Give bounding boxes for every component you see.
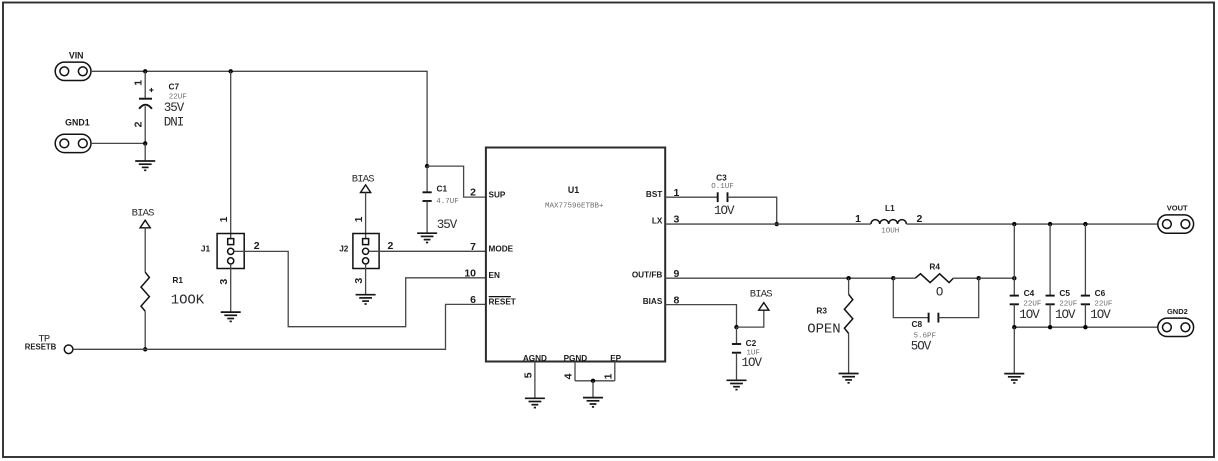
wire C7 top lead bbox=[144, 71, 146, 98]
svg-text:R4: R4 bbox=[929, 262, 940, 272]
wire C2 bottom lead bbox=[736, 353, 738, 381]
wire J2 pin2 to MODE bbox=[369, 250, 486, 252]
wire R4 to right node bbox=[953, 277, 979, 279]
capacitor C8 bbox=[929, 313, 939, 323]
wire VIN to SUP corner bbox=[91, 71, 427, 166]
wire EP lead bbox=[614, 362, 616, 381]
wire PGND-EP bus bbox=[575, 380, 615, 382]
svg-text:1: 1 bbox=[353, 216, 365, 222]
junction OUT/FB / R3 bbox=[846, 276, 850, 280]
svg-text:35V: 35V bbox=[164, 101, 185, 115]
ground at C2 bbox=[727, 380, 747, 389]
connector VOUT bbox=[1158, 215, 1194, 233]
svg-text:GND1: GND1 bbox=[65, 117, 90, 127]
svg-text:C6: C6 bbox=[1095, 288, 1106, 298]
wire to ground GND1 bbox=[144, 143, 146, 161]
svg-text:1: 1 bbox=[602, 373, 614, 379]
wire PGND lead bbox=[574, 362, 576, 381]
svg-text:1: 1 bbox=[133, 80, 145, 86]
wire R1 to RESETB net bbox=[144, 311, 146, 349]
wire C3 to LX node bbox=[728, 197, 777, 224]
wire C6 bottom lead bbox=[1084, 304, 1086, 327]
ground at output bus bbox=[1004, 374, 1024, 383]
wire BIAS pin to C2 bbox=[665, 305, 736, 328]
svg-text:10: 10 bbox=[464, 267, 476, 279]
ground at PGND bbox=[583, 398, 603, 407]
ground at R3 bbox=[839, 374, 859, 383]
wire GND1 to node bbox=[91, 142, 145, 144]
svg-text:1OV: 1OV bbox=[1090, 308, 1111, 322]
svg-text:3: 3 bbox=[353, 278, 365, 284]
connector VIN bbox=[55, 62, 91, 80]
svg-text:C5: C5 bbox=[1059, 288, 1070, 298]
svg-text:BIAS: BIAS bbox=[750, 288, 773, 300]
svg-text:BIAS: BIAS bbox=[132, 207, 155, 219]
wire AGND to ground bbox=[534, 362, 536, 399]
svg-text:DNI: DNI bbox=[164, 115, 184, 129]
svg-text:2: 2 bbox=[133, 121, 145, 127]
svg-text:1OUH: 1OUH bbox=[881, 228, 899, 236]
wire PGND node to ground bbox=[592, 381, 594, 398]
wire C2 top lead bbox=[736, 327, 738, 344]
capacitor C2 bbox=[732, 344, 741, 353]
svg-text:OUT/FB: OUT/FB bbox=[632, 271, 663, 280]
wire FB to C4 column bbox=[979, 277, 1015, 279]
svg-text:C7: C7 bbox=[169, 82, 180, 92]
junction VOUT/C5 bbox=[1048, 222, 1052, 226]
resistor R1 bbox=[141, 272, 149, 311]
wire RESETB net bbox=[73, 304, 486, 349]
junction VOUT/C4 bbox=[1012, 222, 1016, 226]
svg-text:C8: C8 bbox=[912, 319, 923, 329]
power symbol BIAS (R1) bbox=[140, 220, 150, 228]
testpoint TP bbox=[64, 345, 73, 354]
junction GND1/C7 bbox=[143, 141, 147, 145]
wire L1 to VOUT bbox=[906, 223, 1157, 225]
wire C8 left branch bbox=[893, 278, 928, 317]
svg-text:U1: U1 bbox=[568, 185, 579, 195]
wire node to SUP bbox=[427, 166, 486, 197]
wire bus to ground bbox=[1013, 327, 1015, 373]
svg-text:VOUT: VOUT bbox=[1167, 204, 1188, 213]
svg-text:1: 1 bbox=[855, 213, 861, 225]
wire C7 bottom lead bbox=[144, 106, 146, 143]
wire R3 to ground bbox=[848, 333, 850, 373]
wire to R4 bbox=[893, 277, 915, 279]
svg-text:1OOK: 1OOK bbox=[171, 292, 205, 308]
svg-text:O.1UF: O.1UF bbox=[711, 183, 734, 191]
svg-text:RESETB: RESETB bbox=[25, 343, 57, 352]
wire R3 top lead bbox=[848, 278, 850, 294]
svg-text:C3: C3 bbox=[716, 173, 727, 183]
svg-text:5OV: 5OV bbox=[911, 340, 932, 354]
connector J2 bbox=[353, 234, 379, 269]
svg-text:RESET: RESET bbox=[489, 298, 516, 307]
connector J1 bbox=[217, 234, 244, 269]
wire J1 pin3 to ground bbox=[230, 264, 232, 312]
svg-text:2: 2 bbox=[388, 240, 394, 252]
svg-text:LX: LX bbox=[652, 217, 663, 226]
junction C2/BIAS arrow bbox=[734, 325, 738, 329]
wire LX to L1 bbox=[665, 223, 871, 225]
svg-text:4: 4 bbox=[563, 373, 575, 379]
wire J1 pin1 to VIN net bbox=[230, 71, 232, 238]
wire ground bus to GND2 bbox=[1014, 326, 1158, 328]
junction FB/C4 bbox=[1012, 276, 1016, 280]
ground at GND1 bbox=[135, 161, 155, 170]
junction R4/C8 right bbox=[977, 276, 981, 280]
svg-text:2: 2 bbox=[917, 213, 923, 225]
svg-text:EP: EP bbox=[610, 354, 621, 363]
svg-text:6: 6 bbox=[470, 294, 476, 306]
wire to BIAS arrow bbox=[737, 310, 764, 327]
junction bus/C5 bbox=[1048, 325, 1052, 329]
junction R1/RESETB wire bbox=[143, 347, 147, 351]
svg-text:4.7UF: 4.7UF bbox=[436, 198, 459, 206]
wire C1 bottom lead bbox=[426, 201, 428, 233]
junction VOUT/C6 bbox=[1083, 222, 1087, 226]
capacitor C1 bbox=[423, 192, 432, 201]
capacitor C7 plus mark bbox=[149, 88, 153, 92]
capacitor C7 bbox=[139, 99, 152, 109]
junction PGND/EP bbox=[591, 379, 595, 383]
junction C3/LX bbox=[775, 222, 779, 226]
svg-text:GND2: GND2 bbox=[1167, 307, 1188, 316]
svg-text:J2: J2 bbox=[339, 244, 349, 254]
svg-text:O: O bbox=[936, 286, 943, 300]
junction bus/C6 bbox=[1083, 325, 1087, 329]
svg-text:EN: EN bbox=[489, 271, 500, 280]
capacitor C6 bbox=[1081, 296, 1090, 305]
svg-text:C4: C4 bbox=[1024, 288, 1035, 298]
svg-text:5: 5 bbox=[522, 372, 534, 378]
svg-text:1OV: 1OV bbox=[1055, 308, 1076, 322]
wire BST to C3 bbox=[665, 196, 718, 198]
ground at AGND bbox=[525, 398, 545, 407]
wire J2 pin1 lead bbox=[365, 193, 367, 239]
svg-text:VIN: VIN bbox=[69, 51, 84, 61]
wire J2 pin3 to ground bbox=[365, 264, 367, 295]
power symbol BIAS (J2) bbox=[361, 185, 371, 193]
op-amp U1 body bbox=[486, 148, 665, 362]
resistor R3 bbox=[844, 294, 852, 333]
svg-text:J1: J1 bbox=[201, 244, 211, 254]
junction VIN/J1 pin1 bbox=[229, 69, 233, 73]
inductor L1 bbox=[871, 220, 907, 224]
svg-text:R3: R3 bbox=[816, 306, 827, 316]
svg-text:2: 2 bbox=[254, 240, 260, 252]
power symbol BIAS (C2) bbox=[759, 303, 769, 311]
wire C1 top lead bbox=[426, 166, 428, 192]
svg-text:C2: C2 bbox=[746, 338, 757, 348]
svg-text:SUP: SUP bbox=[489, 190, 506, 199]
junction R4/C8 left bbox=[891, 276, 895, 280]
svg-text:7: 7 bbox=[470, 241, 476, 253]
svg-text:OPEN: OPEN bbox=[807, 321, 840, 337]
capacitor C4 bbox=[1010, 296, 1019, 305]
wire C5 top lead bbox=[1049, 224, 1051, 296]
svg-text:1OV: 1OV bbox=[714, 204, 735, 218]
junction bus/C4 bbox=[1012, 325, 1016, 329]
svg-text:1OV: 1OV bbox=[1019, 308, 1040, 322]
svg-text:BIAS: BIAS bbox=[352, 174, 375, 186]
junction C1/SUP bbox=[425, 164, 429, 168]
overline on RESET bbox=[489, 296, 511, 298]
svg-text:L1: L1 bbox=[885, 203, 895, 213]
capacitor C3 bbox=[718, 192, 728, 202]
connector GND2 bbox=[1158, 318, 1194, 336]
svg-text:MODE: MODE bbox=[489, 245, 514, 254]
connector GND1 bbox=[55, 134, 91, 152]
wire C4 bottom lead bbox=[1013, 304, 1015, 327]
resistor R4 bbox=[915, 274, 953, 283]
svg-text:C1: C1 bbox=[437, 183, 448, 193]
svg-text:1OV: 1OV bbox=[742, 356, 763, 370]
svg-text:2: 2 bbox=[470, 187, 476, 199]
wire C4 top lead bbox=[1013, 224, 1015, 296]
capacitor C5 bbox=[1046, 296, 1055, 305]
svg-text:3: 3 bbox=[218, 279, 230, 285]
svg-text:R1: R1 bbox=[172, 275, 183, 285]
wire C6 top lead bbox=[1084, 224, 1086, 296]
wire C5 bottom lead bbox=[1049, 304, 1051, 327]
wire C8 right branch bbox=[938, 278, 978, 317]
svg-text:BST: BST bbox=[646, 190, 662, 199]
svg-text:1: 1 bbox=[218, 216, 230, 222]
ground at J2 bbox=[356, 295, 376, 304]
junction VIN/C7 bbox=[143, 69, 147, 73]
ground at C1 bbox=[417, 233, 437, 242]
wire OUT/FB rail bbox=[665, 277, 893, 279]
wire J1 pin2 to EN bbox=[234, 251, 486, 326]
wire BIAS to R1 bbox=[144, 228, 146, 272]
svg-text:MAX77596ETBB+: MAX77596ETBB+ bbox=[545, 202, 604, 210]
svg-text:35V: 35V bbox=[437, 218, 458, 232]
ground at J1 bbox=[221, 312, 241, 321]
svg-text:BIAS: BIAS bbox=[643, 297, 663, 306]
